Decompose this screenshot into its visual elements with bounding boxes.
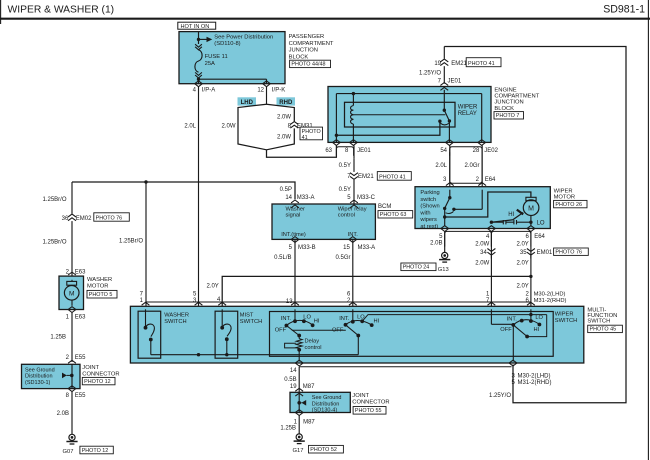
WIPER MOTOR PHOTO 26 label bbox=[554, 200, 587, 207]
svg-text:1.25Br/O: 1.25Br/O bbox=[42, 197, 66, 203]
wire 1.25B to E55 bbox=[71, 312, 73, 362]
relay armature bbox=[444, 110, 449, 121]
pin 5 M33-C bbox=[350, 200, 358, 208]
svg-text:M: M bbox=[69, 290, 75, 297]
SD130-4 PHOTO 55 label bbox=[353, 407, 386, 415]
wiper relay box bbox=[345, 102, 456, 127]
wire 2.0W upper bbox=[490, 231, 492, 258]
svg-text:JOINT: JOINT bbox=[82, 365, 99, 371]
svg-text:0.5Y: 0.5Y bbox=[339, 187, 351, 193]
wire NC to pin63 node bbox=[336, 121, 440, 135]
wiper switch B arc bbox=[346, 321, 372, 326]
svg-text:2.0W: 2.0W bbox=[277, 135, 291, 141]
svg-text:I/P-A: I/P-A bbox=[202, 88, 215, 94]
pin 19 M87 chevron bbox=[295, 388, 303, 396]
svg-text:Parking: Parking bbox=[420, 190, 439, 196]
svg-text:Washer: Washer bbox=[286, 206, 305, 212]
svg-text:2.0Gr: 2.0Gr bbox=[464, 163, 479, 169]
SD130-1 tap symbol bbox=[67, 374, 72, 376]
G07 PHOTO 12 label bbox=[80, 446, 113, 454]
svg-text:LHD: LHD bbox=[241, 100, 254, 106]
svg-text:JE02: JE02 bbox=[484, 148, 498, 154]
svg-text:CONNECTOR: CONNECTOR bbox=[82, 372, 119, 378]
svg-text:(SD130-4): (SD130-4) bbox=[312, 408, 338, 414]
svg-text:JUNCTION: JUNCTION bbox=[289, 48, 318, 54]
wire EM02 to washer motor bbox=[71, 221, 73, 276]
svg-text:MIST: MIST bbox=[240, 313, 254, 319]
svg-text:2.0Y: 2.0Y bbox=[516, 260, 528, 266]
svg-text:54: 54 bbox=[440, 148, 447, 154]
wire through SD130-1 bbox=[71, 364, 73, 388]
pin 4 mist bbox=[218, 302, 226, 310]
svg-text:PHOTO 55: PHOTO 55 bbox=[355, 408, 382, 414]
wire NO to pin 54 bbox=[448, 121, 450, 142]
node parking pivot bbox=[448, 196, 451, 199]
svg-text:switch: switch bbox=[420, 197, 436, 203]
svg-text:JE01: JE01 bbox=[448, 79, 462, 85]
svg-text:1.25Br/O: 1.25Br/O bbox=[119, 238, 143, 244]
pin 8 E55 bbox=[68, 386, 76, 392]
svg-text:with: with bbox=[419, 210, 430, 216]
parking switch arm bbox=[445, 198, 450, 209]
svg-text:PHOTO 12: PHOTO 12 bbox=[82, 448, 109, 454]
svg-text:Distribution: Distribution bbox=[25, 374, 53, 380]
pin 1/7 hi bbox=[488, 302, 496, 310]
svg-text:34: 34 bbox=[480, 250, 487, 256]
wire 0.5Gr bbox=[352, 239, 354, 306]
relay link line bbox=[353, 114, 445, 116]
inline connector EM31 pin 8 bbox=[290, 122, 298, 129]
svg-text:INT.: INT. bbox=[281, 316, 292, 322]
ground G13 bbox=[442, 252, 448, 258]
svg-text:HI: HI bbox=[374, 319, 380, 325]
parking contact rest bbox=[452, 208, 455, 211]
svg-text:2.0L: 2.0L bbox=[184, 124, 196, 130]
wiper switch rect bbox=[270, 312, 554, 357]
PCJB PHOTO 44/48 label bbox=[290, 60, 331, 67]
inline connector EM01 pin 35 bbox=[527, 249, 535, 256]
svg-text:M: M bbox=[528, 205, 534, 212]
svg-text:EM21: EM21 bbox=[358, 174, 374, 180]
SD130-4 tap symbol bbox=[297, 401, 301, 405]
washer switch rect bbox=[138, 311, 161, 358]
svg-text:See Ground: See Ground bbox=[312, 395, 342, 401]
svg-text:See Ground: See Ground bbox=[25, 367, 55, 373]
svg-text:E55: E55 bbox=[75, 393, 86, 399]
svg-text:SWITCH: SWITCH bbox=[240, 319, 262, 325]
fuse holder top clip bbox=[195, 44, 202, 50]
G13 PHOTO 24 label bbox=[401, 263, 436, 271]
wiper switch B arm bbox=[346, 325, 359, 336]
connector bracket E64 lower A bbox=[445, 231, 492, 246]
see power distribution arrow bbox=[199, 38, 207, 40]
svg-text:I/P-K: I/P-K bbox=[272, 88, 285, 94]
svg-text:0.5Gr: 0.5Gr bbox=[335, 255, 350, 261]
svg-text:M30-2(LHD): M30-2(LHD) bbox=[534, 292, 566, 298]
svg-text:25A: 25A bbox=[205, 61, 215, 67]
BCM box (cyan) bbox=[272, 204, 375, 239]
pin 6/2 int bbox=[349, 302, 357, 310]
parking switch common wire bbox=[449, 190, 451, 198]
svg-text:BLOCK: BLOCK bbox=[289, 54, 309, 60]
svg-text:63: 63 bbox=[325, 148, 332, 154]
wire 2.0Gr bbox=[481, 146, 483, 187]
parking contact arc bbox=[446, 211, 454, 213]
wire washer signal bbox=[72, 182, 295, 199]
connector bracket E64 lower B bbox=[491, 231, 531, 246]
EM01 PHOTO 76 label bbox=[554, 248, 589, 255]
EM31 PHOTO 41 label bbox=[300, 127, 323, 140]
svg-text:19: 19 bbox=[434, 61, 441, 67]
svg-text:WIPER & WASHER (1): WIPER & WASHER (1) bbox=[8, 5, 115, 16]
wire 2.0L power feed bbox=[198, 87, 200, 307]
connector bracket JE02 bbox=[450, 147, 482, 156]
svg-text:E63: E63 bbox=[75, 315, 86, 321]
wire 0.5Y lower bbox=[353, 180, 355, 204]
washer motor box (cyan) bbox=[59, 276, 84, 309]
svg-text:0.5P: 0.5P bbox=[280, 187, 292, 193]
svg-text:ENGINE: ENGINE bbox=[494, 88, 516, 94]
svg-text:JUNCTION: JUNCTION bbox=[494, 100, 523, 106]
WASHER MOTOR PHOTO 5 label bbox=[87, 290, 117, 298]
svg-text:PHOTO 12: PHOTO 12 bbox=[84, 379, 111, 385]
wire C pivot to pin 3/5 bbox=[512, 325, 514, 362]
svg-text:JOINT: JOINT bbox=[352, 393, 369, 399]
node pin63 junction bbox=[335, 134, 338, 137]
svg-text:14: 14 bbox=[285, 195, 292, 201]
svg-text:control: control bbox=[338, 213, 355, 219]
wire B LO to common bbox=[362, 315, 547, 322]
mist switch contacts bbox=[221, 309, 223, 327]
wire pin63 riser bbox=[335, 94, 337, 143]
svg-text:FUSE 11: FUSE 11 bbox=[205, 54, 228, 60]
svg-text:35: 35 bbox=[520, 250, 527, 256]
SD130-1 PHOTO 12 label bbox=[82, 377, 115, 384]
svg-text:SWITCH: SWITCH bbox=[164, 319, 186, 325]
svg-text:Wiper relay: Wiper relay bbox=[338, 206, 367, 212]
svg-text:RHD: RHD bbox=[279, 100, 293, 106]
svg-text:COMPARTMENT: COMPARTMENT bbox=[289, 41, 334, 47]
wire to EM02 bbox=[71, 182, 73, 214]
svg-text:0.5Y: 0.5Y bbox=[339, 163, 351, 169]
pin 6 E64 bbox=[527, 226, 535, 232]
node coil top bbox=[352, 92, 355, 95]
svg-text:RELAY: RELAY bbox=[458, 111, 477, 117]
header rule bbox=[0, 18, 650, 20]
wire B+ feed loop bbox=[444, 47, 626, 403]
wire 0.5L/B bbox=[294, 239, 296, 306]
pin 63 bbox=[332, 140, 340, 146]
svg-text:15: 15 bbox=[343, 245, 350, 251]
svg-text:2.0W: 2.0W bbox=[475, 260, 489, 266]
connector line M30-2 bottom bbox=[299, 366, 511, 368]
svg-text:PHOTO 41: PHOTO 41 bbox=[468, 61, 495, 67]
wire 2.0Y upper bbox=[530, 231, 532, 258]
svg-text:PHOTO 26: PHOTO 26 bbox=[555, 202, 582, 208]
pin 14/19 delay out bbox=[295, 360, 303, 366]
svg-text:OFF: OFF bbox=[332, 327, 344, 333]
node parking arm end bbox=[443, 207, 446, 210]
wiper switch B contacts bbox=[344, 323, 348, 327]
wire top bus to JE02 bbox=[336, 93, 481, 95]
svg-text:12: 12 bbox=[257, 88, 264, 94]
svg-text:19: 19 bbox=[290, 384, 297, 390]
wire to pin 12 bbox=[199, 78, 267, 80]
svg-text:E63: E63 bbox=[75, 270, 86, 276]
motor HI brush bbox=[517, 210, 523, 215]
svg-text:MOTOR: MOTOR bbox=[554, 195, 575, 201]
node LO common bbox=[529, 313, 532, 316]
wire 0.5Y relay to BCM bbox=[353, 146, 355, 159]
fuse F11 symbol bbox=[195, 50, 202, 72]
svg-text:2.0B: 2.0B bbox=[57, 411, 69, 417]
wire RHD branch lower bbox=[267, 128, 295, 149]
inline connector EM21 pin 7 bbox=[350, 173, 358, 180]
svg-text:14: 14 bbox=[290, 368, 297, 374]
wire B arm to bus bbox=[357, 336, 359, 355]
svg-text:LO: LO bbox=[535, 315, 543, 321]
washer motor symbol bbox=[71, 280, 73, 282]
inline connector EM21 pin 19 bbox=[443, 66, 445, 84]
svg-text:2.0W: 2.0W bbox=[221, 124, 235, 130]
svg-text:2.0Y: 2.0Y bbox=[206, 283, 218, 289]
svg-text:(SD110-8): (SD110-8) bbox=[214, 41, 240, 47]
svg-text:BLOCK: BLOCK bbox=[494, 106, 514, 112]
node fuse feed bbox=[197, 38, 200, 41]
svg-text:G07: G07 bbox=[63, 449, 74, 455]
svg-text:1.25Br/O: 1.25Br/O bbox=[42, 240, 66, 246]
svg-text:2.0L: 2.0L bbox=[435, 163, 447, 169]
svg-text:CONNECTOR: CONNECTOR bbox=[352, 400, 389, 406]
pin 4 E64 bbox=[487, 226, 495, 232]
pin 2/6 lo bbox=[527, 302, 535, 310]
node motor LO bbox=[529, 221, 532, 224]
wire 2.0Y to junction bbox=[530, 256, 532, 307]
multifunction switch box (cyan) bbox=[130, 306, 583, 363]
svg-text:M33-A: M33-A bbox=[297, 195, 315, 201]
pin 1 M87 bbox=[295, 410, 303, 416]
svg-text:COMPARTMENT: COMPARTMENT bbox=[494, 94, 539, 100]
wire pin7 to relay common bbox=[443, 90, 445, 110]
svg-text:EM01: EM01 bbox=[537, 250, 553, 256]
washer switch contacts bbox=[145, 309, 147, 327]
wiper switch C contacts bbox=[511, 323, 515, 327]
motor suppressor line bbox=[491, 221, 503, 223]
svg-text:M87: M87 bbox=[303, 420, 315, 426]
wiper switch A arc bbox=[286, 320, 312, 325]
svg-text:WIPER: WIPER bbox=[555, 311, 574, 317]
svg-text:(Shown: (Shown bbox=[420, 204, 439, 210]
ground G07 bbox=[69, 434, 75, 440]
wire I/P-K stub bbox=[266, 87, 268, 105]
svg-text:OFF: OFF bbox=[275, 328, 287, 334]
inline connector EM02 pin 36 bbox=[68, 214, 76, 221]
svg-text:2.0W: 2.0W bbox=[277, 115, 291, 121]
wiper motor M bbox=[523, 200, 539, 216]
pin 8 JE01 bbox=[349, 140, 357, 146]
svg-text:2.0Y: 2.0Y bbox=[516, 241, 528, 247]
wiper switch C hi wire bbox=[490, 309, 492, 324]
motor LO lead bbox=[530, 216, 532, 226]
pin 7/1 washer switch bbox=[142, 302, 150, 310]
pin 3/5 out bbox=[509, 360, 517, 366]
wiper switch C arm bbox=[513, 325, 527, 337]
svg-text:M87: M87 bbox=[303, 384, 315, 390]
svg-text:WIPER: WIPER bbox=[554, 188, 573, 194]
relay contact NO bbox=[448, 119, 451, 122]
gang link line bbox=[292, 329, 346, 331]
pin 5/3 power bbox=[195, 302, 203, 310]
svg-text:M33-B: M33-B bbox=[298, 245, 316, 251]
pin 54 bbox=[445, 140, 453, 146]
svg-text:Delay: Delay bbox=[305, 339, 320, 345]
svg-text:0.5B: 0.5B bbox=[284, 377, 296, 383]
motor HI lead bbox=[491, 213, 523, 223]
svg-text:G13: G13 bbox=[438, 267, 449, 273]
svg-text:(SD130-1): (SD130-1) bbox=[25, 380, 51, 386]
wire 0.5B bbox=[298, 367, 300, 393]
relay contact arc bbox=[441, 123, 449, 125]
svg-text:13: 13 bbox=[286, 299, 293, 305]
wiper motor box (cyan) bbox=[415, 187, 550, 229]
svg-text:SWITCH: SWITCH bbox=[555, 318, 577, 324]
EM21 PHOTO 41 label 2 bbox=[377, 172, 411, 181]
pin 2 E63 bbox=[68, 272, 76, 280]
MF PHOTO 45 label bbox=[588, 325, 623, 332]
svg-text:0.5L/B: 0.5L/B bbox=[274, 255, 291, 261]
wiper switch A wire bbox=[294, 309, 296, 321]
svg-text:WIPER: WIPER bbox=[458, 105, 478, 111]
wire 2.0W to MF pin1 bbox=[490, 256, 492, 307]
G17 PHOTO 52 label bbox=[309, 445, 344, 453]
pin 1 E63 bbox=[68, 307, 76, 313]
fuse holder bottom clip bbox=[195, 72, 202, 78]
svg-text:WASHER: WASHER bbox=[164, 313, 189, 319]
wire parking common down bbox=[444, 208, 446, 225]
svg-text:SD981-1: SD981-1 bbox=[603, 3, 645, 15]
wire merge to pin 63 bbox=[267, 146, 337, 158]
internal supply bus bbox=[151, 354, 358, 356]
pin 4 I/P-A bbox=[195, 81, 203, 87]
svg-text:G17: G17 bbox=[293, 448, 304, 454]
node motor feed junction bbox=[443, 215, 446, 218]
svg-text:PHOTO 63: PHOTO 63 bbox=[380, 212, 407, 218]
inline connector EM01 pin 34 bbox=[487, 249, 495, 256]
delay control tap bbox=[285, 343, 297, 348]
svg-text:HI: HI bbox=[314, 319, 320, 325]
svg-text:M33-C: M33-C bbox=[357, 195, 376, 201]
svg-text:BCM: BCM bbox=[378, 204, 391, 210]
relay coil bbox=[352, 94, 354, 106]
svg-text:at rest): at rest) bbox=[420, 224, 438, 230]
svg-text:M31-2(RHD): M31-2(RHD) bbox=[534, 298, 567, 304]
svg-text:WASHER: WASHER bbox=[87, 277, 112, 283]
svg-text:EM21: EM21 bbox=[451, 61, 467, 67]
pin 28 JE02 bbox=[478, 140, 486, 146]
wire washer switch feed bbox=[145, 182, 147, 306]
svg-text:1.25Y/O: 1.25Y/O bbox=[489, 393, 511, 399]
wire pin2 to rest contact bbox=[481, 190, 483, 210]
svg-text:2.0Y: 2.0Y bbox=[516, 283, 528, 289]
ECJB PHOTO 7 label bbox=[494, 112, 524, 119]
pin 2 E55 bbox=[68, 360, 76, 368]
svg-text:M31-2(RHD): M31-2(RHD) bbox=[518, 380, 552, 386]
pin 14 M33-A bbox=[291, 200, 299, 208]
svg-text:OFF: OFF bbox=[500, 327, 512, 333]
svg-text:HI: HI bbox=[508, 212, 514, 218]
joint connector SD130-4 (cyan box) bbox=[290, 392, 350, 412]
ground G17 bbox=[296, 434, 302, 440]
svg-text:JE01: JE01 bbox=[357, 148, 371, 154]
joint connector SD130-1 (cyan box) bbox=[22, 364, 81, 388]
wiper switch B wire bbox=[352, 309, 354, 321]
wire LHD branch bbox=[238, 104, 267, 150]
wire 0.5Y mid bbox=[353, 159, 355, 172]
wire 2.0B to G07 bbox=[71, 391, 73, 434]
svg-text:2.0B: 2.0B bbox=[430, 241, 442, 247]
wiper switch C lo wire bbox=[530, 309, 532, 321]
pin 5 E64 bbox=[441, 226, 449, 232]
svg-text:MOTOR: MOTOR bbox=[87, 284, 108, 290]
wire through SD130-4 bbox=[298, 392, 300, 412]
wire 2.0Y to mist pin 4 bbox=[222, 276, 531, 306]
connector bracket JE01 bbox=[336, 147, 353, 156]
svg-text:PHOTO 5: PHOTO 5 bbox=[89, 292, 113, 298]
svg-text:PHOTO 41: PHOTO 41 bbox=[379, 174, 406, 180]
svg-text:SWITCH: SWITCH bbox=[587, 319, 610, 325]
svg-text:EM02: EM02 bbox=[76, 216, 92, 222]
node washer branch bbox=[144, 180, 147, 183]
svg-text:E64: E64 bbox=[485, 177, 496, 183]
node relay common bbox=[443, 109, 446, 112]
LHD tag bbox=[238, 97, 257, 105]
EM21 PHOTO 41 label bbox=[466, 58, 501, 67]
node 2.0Y branch bbox=[529, 275, 532, 278]
engine compartment junction block (cyan box) bbox=[328, 87, 491, 143]
svg-text:M30-2(LHD): M30-2(LHD) bbox=[518, 373, 551, 379]
svg-text:control: control bbox=[305, 345, 322, 351]
svg-text:E55: E55 bbox=[75, 355, 86, 361]
svg-text:HI: HI bbox=[534, 327, 540, 333]
svg-text:LO: LO bbox=[537, 221, 545, 227]
wiper switch C arc bbox=[513, 320, 539, 325]
svg-text:1.25B: 1.25B bbox=[50, 335, 66, 341]
RHD tag bbox=[277, 97, 296, 105]
svg-text:INT.: INT. bbox=[339, 316, 350, 322]
delay control resistor bbox=[298, 336, 300, 339]
svg-text:2.0W: 2.0W bbox=[475, 241, 489, 247]
pin 3 E64 top bbox=[446, 183, 454, 191]
wiper switch A contacts bbox=[285, 324, 289, 328]
svg-text:INT.: INT. bbox=[507, 317, 518, 323]
svg-text:1.25B: 1.25B bbox=[280, 426, 296, 432]
svg-text:PHOTO 76: PHOTO 76 bbox=[555, 250, 582, 256]
relay contact NC bbox=[438, 120, 441, 123]
wire RHD branch upper bbox=[267, 104, 295, 121]
HOT IN ON tab bbox=[178, 22, 216, 29]
BCM PHOTO 63 label bbox=[378, 211, 413, 218]
connector line M30-2 top bbox=[146, 301, 531, 303]
node fuse out bbox=[197, 78, 200, 81]
svg-text:E64: E64 bbox=[534, 234, 545, 240]
pin 12 I/P-K bbox=[263, 81, 271, 87]
pin 7 JE01 bbox=[440, 83, 448, 91]
svg-text:PHOTO 24: PHOTO 24 bbox=[403, 265, 430, 271]
svg-text:PHOTO 44/48: PHOTO 44/48 bbox=[291, 62, 325, 68]
pin 2 E64 top bbox=[478, 183, 486, 191]
svg-text:See Power Distribution: See Power Distribution bbox=[214, 34, 273, 40]
connector bracket E64 upper bbox=[450, 152, 482, 183]
